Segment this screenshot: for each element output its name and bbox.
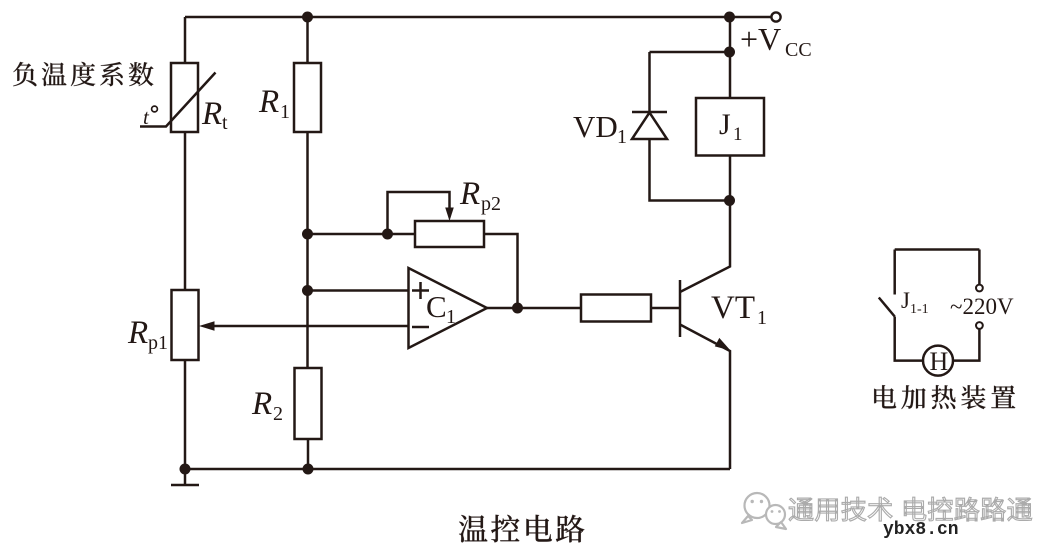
- wire: VD1 branch lower: [650, 139, 730, 201]
- node: J1/VD1 bottom junction: [724, 195, 735, 206]
- transistor VT1 base bar: [679, 280, 682, 337]
- wire: R1 bottom down to R2: [306, 132, 309, 368]
- wire: heater loop left upper: [893, 250, 896, 295]
- wire: heater loop bottom right: [953, 329, 979, 361]
- potentiometer Rp2 body: [415, 221, 484, 247]
- terminal circle upper: [976, 285, 983, 292]
- svg-text:1-1: 1-1: [910, 302, 929, 317]
- caption 温控电路 (temperature control circuit): [459, 515, 487, 542]
- node: output/feedback junction: [512, 303, 523, 314]
- svg-text:2: 2: [273, 403, 283, 425]
- wire: Rp1 bottom to ground rail: [184, 360, 187, 469]
- terminal circle lower: [976, 322, 983, 329]
- svg-text:R: R: [459, 176, 480, 212]
- label 负温度系数 (negative temperature coefficient): [13, 62, 36, 86]
- heater H circle: [923, 346, 953, 376]
- resistor R1 body: [294, 63, 321, 132]
- terminal +Vcc open circle: [771, 12, 780, 21]
- resistor (base) body: [581, 295, 651, 322]
- svg-text:1: 1: [280, 101, 290, 123]
- wire: base resistor to VT1 base: [651, 307, 680, 310]
- op-amp plus input sign: [412, 282, 429, 299]
- wire: op-amp output to base resistor: [487, 307, 581, 310]
- op-amp C1 triangle: [409, 268, 488, 348]
- relay coil J1 body: [696, 98, 764, 156]
- watermark text 通用技术 电控路路通: [789, 498, 813, 521]
- svg-text:R: R: [201, 96, 222, 132]
- wire: collector up to relay J1: [729, 156, 732, 202]
- svg-text:p1: p1: [148, 332, 168, 354]
- thermistor Rt diagonal stroke: [140, 73, 216, 127]
- node: supply rail junction: [724, 12, 735, 23]
- svg-text:J: J: [901, 288, 910, 313]
- svg-text:t: t: [222, 112, 228, 134]
- svg-text:C: C: [426, 289, 447, 324]
- wire: divider tap to Rp2 left: [308, 233, 416, 236]
- switch J1-1 blade: [879, 298, 895, 317]
- potentiometer Rp1 body: [172, 290, 199, 360]
- watermark wechat icon: [742, 493, 786, 529]
- node: ground junction left: [180, 464, 191, 475]
- svg-text:VD: VD: [573, 109, 618, 144]
- svg-text:1: 1: [757, 307, 767, 329]
- svg-text:VT: VT: [711, 290, 755, 326]
- label 电加热装置 (electric heating device): [874, 385, 896, 408]
- svg-text:1: 1: [446, 306, 456, 328]
- wire: inverting input to Rp1 wiper (arrow): [210, 325, 409, 328]
- svg-text:H: H: [930, 347, 949, 376]
- wire: J1 top to supply node: [729, 17, 732, 98]
- node: non-inverting input junction: [302, 285, 313, 296]
- wire: heater loop right upper: [978, 250, 981, 285]
- wire: heater loop left lower: [895, 317, 923, 361]
- svg-text:R: R: [127, 315, 148, 351]
- diode VD1 triangle: [632, 113, 667, 140]
- node: R2 bottom junction: [303, 464, 314, 475]
- svg-text:1: 1: [733, 124, 743, 145]
- node: R1 top junction: [302, 12, 313, 23]
- transistor VT1 collector: [680, 201, 730, 292]
- transistor VT1 emitter with arrow: [680, 325, 730, 470]
- svg-text:R: R: [251, 386, 272, 422]
- wire: R2 bottom: [307, 439, 310, 469]
- Rp2 wiper arm with arrow: [388, 192, 450, 234]
- svg-text:1: 1: [617, 126, 627, 148]
- svg-text:CC: CC: [785, 39, 812, 61]
- wire: non-inverting input: [308, 289, 409, 292]
- wire: VD1 branch upper: [648, 52, 651, 112]
- wire: Rt branch top: [184, 17, 187, 63]
- wire: top supply rail: [185, 16, 771, 19]
- svg-text:ybx8.cn: ybx8.cn: [883, 520, 959, 540]
- op-amp minus input sign: [412, 326, 429, 329]
- node: divider tap junction: [302, 229, 313, 240]
- ground symbol: [184, 469, 187, 484]
- svg-text:+V: +V: [740, 21, 781, 57]
- node: J1/VD1 top junction: [724, 47, 735, 58]
- wire: R1 top: [306, 17, 309, 63]
- svg-text:~220V: ~220V: [950, 294, 1014, 319]
- wire: top link to VD1 branch: [650, 51, 730, 54]
- node: Rp2 wiper tap junction: [382, 229, 393, 240]
- wire: bottom ground rail: [185, 468, 730, 471]
- wire: Rp2 right to op-amp output (feedback): [484, 234, 518, 308]
- svg-text:p2: p2: [481, 193, 501, 215]
- wire: heater loop top: [895, 248, 980, 251]
- svg-text:J: J: [719, 108, 731, 141]
- diode VD1 cathode bar: [632, 111, 667, 114]
- svg-text:R: R: [258, 84, 279, 120]
- wire: Rt bottom to Rp1: [184, 132, 187, 290]
- thermistor Rt body: [171, 63, 198, 132]
- resistor R2 body: [295, 368, 322, 439]
